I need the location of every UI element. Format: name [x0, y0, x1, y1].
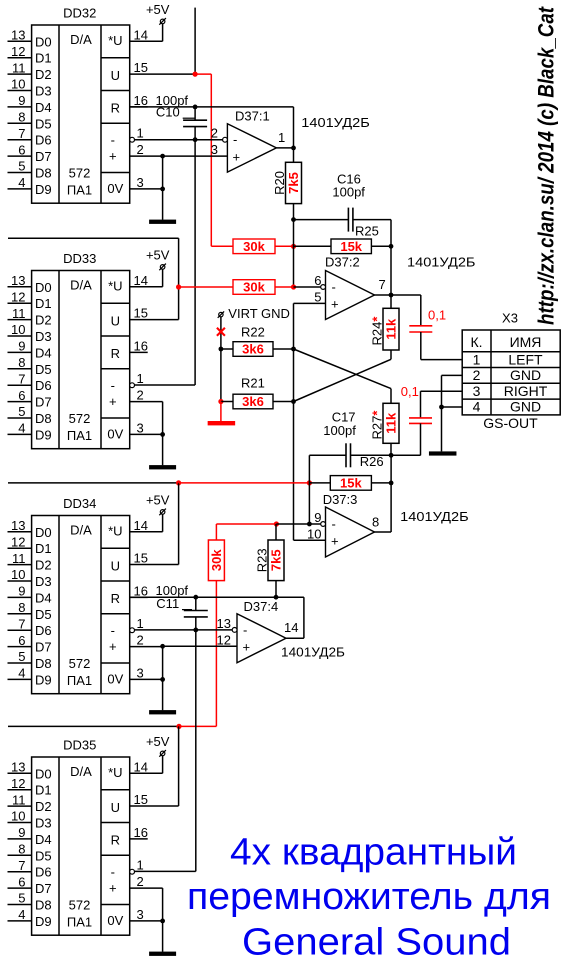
wire: output to 0,1 cap	[391, 294, 421, 296]
svg-text:C10: C10	[156, 105, 180, 120]
svg-text:2: 2	[211, 126, 218, 141]
node DD32 U (red junction)	[193, 72, 198, 77]
resistor 30k (stage2 input)	[179, 286, 233, 288]
node 30k/R25 (red)	[291, 244, 296, 249]
svg-text:R20: R20	[272, 171, 287, 195]
svg-text:0,1: 0,1	[401, 384, 419, 399]
svg-text:1401УД2Б: 1401УД2Б	[400, 509, 469, 524]
svg-text:100pf: 100pf	[332, 184, 365, 199]
wire: D37:3 output vertical	[390, 455, 392, 532]
wire: inverting bus down to DD35 pin1	[195, 630, 197, 872]
resistor 30k (stage1 input)	[211, 245, 233, 247]
diagonal: R22 node to R27	[294, 349, 392, 389]
svg-text:1: 1	[473, 351, 481, 367]
ground X3	[441, 407, 443, 451]
svg-text:R21: R21	[241, 376, 265, 391]
wire: DD32 pin15 (U) to node	[130, 73, 195, 75]
svg-text:6: 6	[314, 273, 321, 288]
capacitor C11	[195, 597, 197, 610]
svg-text:D37:2: D37:2	[325, 255, 360, 270]
svg-text:перемножитель для: перемножитель для	[187, 876, 551, 918]
svg-text:8: 8	[372, 515, 379, 530]
wire: C17 node down to pin9 wire	[308, 483, 310, 524]
svg-text:-: -	[332, 280, 336, 295]
node DD33 U (red)	[176, 284, 181, 289]
wire: D37:3 pin10	[294, 539, 326, 541]
svg-text:RIGHT: RIGHT	[504, 383, 548, 399]
node R20 / C16 / R25	[291, 217, 296, 222]
svg-text:1401УД2Б: 1401УД2Б	[281, 645, 345, 660]
svg-text:11k: 11k	[384, 412, 399, 434]
diagonal: R24 to R21 node	[294, 359, 392, 401]
VIRT GND symbol	[219, 312, 223, 316]
wire: DD33 pin1 to common bus	[135, 384, 196, 386]
red X mark	[217, 328, 225, 336]
red bus to stage3	[179, 482, 310, 484]
wire: X3 pin4 GND	[442, 406, 463, 408]
resistor R25 15k	[294, 245, 332, 247]
wire red: U node to 30k R feed	[195, 73, 211, 75]
svg-text:DD33: DD33	[63, 251, 96, 266]
svg-text:3k6: 3k6	[242, 394, 264, 409]
wire: DD33 pin15 riser	[130, 319, 179, 321]
svg-text:General Sound: General Sound	[242, 922, 511, 964]
svg-text:D37:4: D37:4	[244, 599, 279, 614]
capacitor C17 100pf	[308, 455, 310, 483]
svg-text:30k: 30k	[243, 239, 265, 254]
svg-text:К.: К.	[470, 334, 482, 350]
op-amp D37:4	[237, 614, 286, 663]
svg-text:D37:3: D37:3	[323, 492, 358, 507]
capacitor C10	[194, 107, 196, 120]
svg-text:10: 10	[307, 526, 321, 541]
svg-text:3: 3	[211, 142, 218, 157]
svg-text:http://zx.clan.su/ 2014 (c) Bl: http://zx.clan.su/ 2014 (c) Black_Cat	[534, 6, 559, 325]
svg-text:9: 9	[314, 510, 321, 525]
svg-text:R23: R23	[255, 548, 270, 572]
svg-text:DD35: DD35	[63, 738, 96, 753]
capacitor 0,1 (right out)	[420, 391, 422, 418]
svg-text:4х квадрантный: 4х квадрантный	[230, 832, 517, 874]
wire: DD32 pin2 (+) to op-amp D37:1 pin3	[163, 155, 228, 157]
svg-text:12: 12	[217, 632, 231, 647]
wire: DD34 pin1 to D37:4 pin13	[135, 629, 233, 631]
svg-text:3k6: 3k6	[242, 342, 264, 357]
wire: D37:2 pin5 from R22 node	[294, 302, 326, 304]
resistor R23 7k5	[275, 524, 277, 540]
wire: D37:2 output pin7	[375, 294, 392, 296]
resistor R26 15k	[309, 482, 330, 484]
wire: pin9 net	[276, 523, 320, 525]
svg-text:+: +	[233, 149, 241, 164]
op-amp D37:2	[326, 271, 375, 320]
wire: DD34 pin2 to D37:4 pin12	[163, 645, 237, 647]
svg-text:0,1: 0,1	[428, 308, 446, 323]
wire: DD32 pin1 to op-amp D37:1 pin2	[135, 139, 223, 141]
DD35 bus from left edge	[8, 725, 179, 727]
op-amp D37:3	[326, 507, 375, 557]
svg-text:R22: R22	[241, 325, 265, 340]
wire: DD35 pin1 to bus	[135, 870, 196, 872]
svg-text:13: 13	[217, 616, 231, 631]
svg-text:-: -	[243, 622, 247, 637]
resistor R20 7k5	[293, 148, 295, 162]
svg-text:GND: GND	[510, 367, 541, 383]
svg-text:5: 5	[314, 289, 321, 304]
svg-text:DD32: DD32	[63, 6, 96, 21]
svg-text:1401УД2Б: 1401УД2Б	[301, 115, 370, 130]
svg-text:30k: 30k	[209, 549, 224, 571]
DAC DD33 (572ПА1)	[8, 248, 177, 470]
svg-text:D37:1: D37:1	[235, 108, 270, 123]
DAC DD35 (572ПА1)	[8, 734, 177, 956]
resistor R27* 11k	[390, 389, 392, 404]
svg-text:3: 3	[473, 383, 481, 399]
svg-text:7k5: 7k5	[286, 172, 301, 194]
wire: D37:3 output pin8	[375, 531, 392, 533]
svg-text:1: 1	[278, 130, 285, 145]
resistor R21 3k6	[218, 399, 223, 404]
svg-text:GS-OUT: GS-OUT	[483, 415, 538, 431]
resistor R24* 11k	[390, 295, 392, 308]
DD33 bus from left edge	[8, 237, 179, 239]
svg-text:LEFT: LEFT	[508, 351, 543, 367]
svg-text:R27*: R27*	[370, 410, 385, 440]
svg-text:R24*: R24*	[370, 316, 385, 346]
svg-text:R26: R26	[360, 454, 384, 469]
wire: DD34 pin15 riser	[178, 483, 180, 565]
svg-text:15k: 15k	[340, 239, 362, 254]
node C10 / inverting input	[193, 137, 198, 142]
node DD34 U (red)	[176, 480, 181, 485]
capacitor 0,1 (left out)	[409, 325, 432, 327]
svg-text:DD34: DD34	[63, 496, 96, 511]
connector X3 table	[462, 330, 560, 415]
resistor 30k vertical (stage4 feed, red)	[215, 524, 217, 540]
red wire from 30k vert to R23	[216, 523, 276, 525]
svg-text:C11: C11	[156, 596, 179, 611]
op-amp D37:1	[227, 124, 276, 172]
wire: DD32 pin16 R wrap to op-amp output	[130, 106, 294, 108]
svg-text:1401УД2Б: 1401УД2Б	[407, 255, 476, 270]
DAC DD32 (572ПА1)	[8, 2, 177, 224]
svg-text:+: +	[331, 534, 339, 549]
svg-text:VIRT GND: VIRT GND	[228, 306, 290, 321]
svg-text:X3: X3	[502, 311, 518, 326]
svg-text:+: +	[243, 640, 251, 655]
capacitor C16 100pf	[294, 219, 349, 221]
wire: X3 pin1 LEFT	[421, 359, 462, 361]
svg-text:-: -	[332, 517, 336, 532]
resistor R22 3k6	[219, 347, 224, 352]
svg-text:15k: 15k	[340, 476, 362, 491]
wire: node to D37:2 pin 6	[293, 220, 295, 287]
wire: X3 pin3 RIGHT	[421, 390, 463, 392]
wire: DD35 pin15 riser	[130, 805, 179, 807]
svg-text:2: 2	[473, 367, 481, 383]
wire to D37:2 pin6	[294, 286, 321, 288]
svg-text:-: -	[233, 132, 237, 147]
wire: common inverting bus down to DD33 pin1	[194, 140, 196, 385]
svg-text:GND: GND	[510, 399, 541, 415]
wire: stub up from U node	[194, 8, 196, 75]
svg-text:R25: R25	[355, 224, 379, 239]
svg-text:ИМЯ: ИМЯ	[510, 334, 542, 350]
virtual ground (red)	[220, 402, 222, 422]
svg-text:+: +	[331, 297, 339, 312]
DD34 bus from left edge	[8, 482, 179, 484]
svg-text:100pf: 100pf	[323, 423, 356, 438]
wire: X3 pin2 GND	[442, 374, 463, 376]
wire: DD34 pin16 R wrap to op-amp output	[130, 596, 304, 598]
DAC DD34 (572ПА1)	[8, 493, 177, 715]
svg-text:7k5: 7k5	[269, 549, 284, 571]
svg-text:11k: 11k	[384, 318, 399, 340]
svg-text:4: 4	[473, 399, 481, 415]
svg-text:7: 7	[379, 277, 386, 292]
svg-text:14: 14	[284, 620, 298, 635]
svg-text:30k: 30k	[243, 280, 265, 295]
wire: D37:1 output pin1	[276, 147, 293, 149]
